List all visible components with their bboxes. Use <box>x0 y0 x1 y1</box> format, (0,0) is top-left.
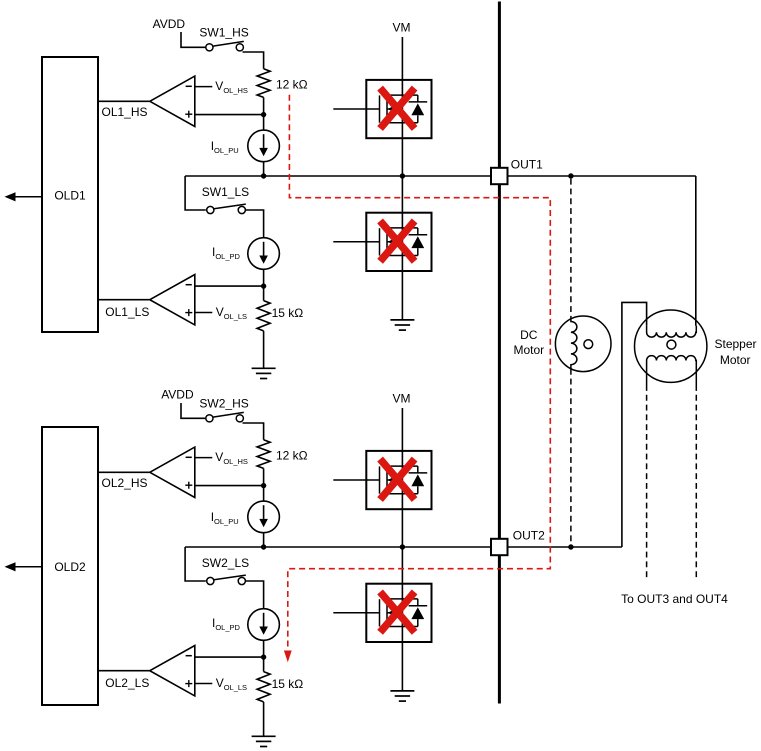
wire OUT1 row to stepper winding (right side) <box>695 176 697 326</box>
comparator OL1_HS <box>150 76 195 126</box>
svg-text:OLD1: OLD1 <box>54 189 86 203</box>
svg-text:AVDD: AVDD <box>161 388 194 402</box>
node OUT1 terminal <box>491 168 508 184</box>
ground (below low-side FET, channel 1) <box>390 319 414 321</box>
wire non-inverting input to sense node <box>195 114 264 116</box>
ground (below 15k, channel 2) <box>252 735 276 737</box>
dashed wire DC motor to OUT2 <box>570 369 572 545</box>
output arrow from OLD2 <box>14 566 43 568</box>
switch SW2_LS <box>185 547 206 581</box>
open-load detect block OLD2 <box>42 427 98 705</box>
wire right side down to coil <box>695 325 698 327</box>
junction on output row (FET column) <box>400 544 405 549</box>
comparator OL2_LS <box>150 646 195 696</box>
current source IOL_PU (channel 2) <box>248 501 280 533</box>
svg-text:12 kΩ: 12 kΩ <box>276 78 308 92</box>
dashed wire OUT1 to DC motor <box>570 179 572 319</box>
wire comparator output to OLD block <box>98 100 150 102</box>
svg-text:SW2_LS: SW2_LS <box>202 556 249 570</box>
svg-text:Stepper: Stepper <box>714 337 756 351</box>
output arrow from OLD1 <box>14 196 43 198</box>
junction on output row (current source) <box>261 173 266 178</box>
wire output row right of terminal <box>508 546 622 548</box>
VM output bus (thick vertical line) <box>498 2 501 704</box>
wire AVDD stub <box>181 32 206 47</box>
svg-text:AVDD: AVDD <box>153 17 186 31</box>
comparator OL2_HS <box>150 447 195 497</box>
stepper winding B (bottom coil) <box>647 356 697 372</box>
red X over low-side FET (disabled) <box>380 221 415 261</box>
wire current source to sense node <box>263 269 265 286</box>
wire comparator output to OLD block <box>98 670 150 672</box>
gate stub low-side FET <box>333 612 366 614</box>
dashed wire to OUT4 <box>695 385 697 578</box>
wire low-side FET to ground <box>401 271 403 320</box>
gate stub low-side FET <box>333 241 366 243</box>
wire output row to low-side FET <box>401 547 403 584</box>
junction on output row (current source) <box>261 544 266 549</box>
svg-text:OUT2: OUT2 <box>513 529 545 543</box>
svg-text:OL1_LS: OL1_LS <box>105 305 149 319</box>
wire inverting input to sense node <box>195 285 264 287</box>
node OUT2 terminal <box>491 539 508 555</box>
wire resistor to ground <box>263 702 265 736</box>
junction to motor (dashed branch) <box>568 544 573 549</box>
svg-text:Motor: Motor <box>720 353 751 367</box>
wire VM to high-side FET <box>401 37 403 80</box>
wire current source to output row <box>263 533 265 547</box>
svg-text:SW1_LS: SW1_LS <box>202 185 249 199</box>
resistor 15 kΩ pull-down (channel 2) <box>257 672 270 702</box>
svg-text:OLD2: OLD2 <box>54 560 86 574</box>
wire switch to pull-down source <box>245 210 263 238</box>
gate stub high-side FET <box>333 108 366 110</box>
open-load detect block OLD1 <box>42 57 98 332</box>
current source IOL_PD (channel 1) <box>248 238 280 270</box>
current source IOL_PU (channel 1) <box>248 130 280 162</box>
wire current source to sense node <box>263 640 265 657</box>
wire switch to resistor <box>243 52 264 69</box>
wire non-inverting input to VOL_LS reference <box>195 312 213 314</box>
wire comparator output to OLD block <box>98 299 150 301</box>
wire resistor to node <box>263 468 265 485</box>
junction node at 12k/IOL_PU <box>261 483 266 488</box>
wire OUT2 row <box>185 546 491 548</box>
stepper motor shaft circle <box>667 340 676 349</box>
svg-text:OL2_LS: OL2_LS <box>105 676 149 690</box>
current source IOL_PD (channel 2) <box>248 609 280 641</box>
svg-text:15 kΩ: 15 kΩ <box>272 677 304 691</box>
wire non-inverting input to VOL_LS reference <box>195 683 213 685</box>
junction node at IOL_PD/15k <box>261 283 266 288</box>
wire low-side FET to ground <box>401 642 403 691</box>
svg-text:Motor: Motor <box>513 343 544 357</box>
wire AVDD stub <box>181 403 206 418</box>
svg-text:15 kΩ: 15 kΩ <box>272 306 304 320</box>
gate stub high-side FET <box>333 479 366 481</box>
wire OUT2 row to stepper winding (left side) <box>622 302 647 547</box>
junction on output row (FET column) <box>400 173 405 178</box>
resistor 12 kΩ pull-up (channel 1) <box>257 69 270 98</box>
ground (below low-side FET, channel 2) <box>390 690 414 692</box>
wire node to current source <box>263 486 265 502</box>
wire switch to pull-down source <box>245 581 263 609</box>
svg-text:OL2_HS: OL2_HS <box>102 476 148 490</box>
red X over high-side FET (disabled) <box>380 88 415 128</box>
wire output row to low-side FET <box>401 176 403 213</box>
switch SW1_LS <box>185 176 206 210</box>
wire inverting input to VOL_HS reference <box>195 457 213 459</box>
dashed wire to OUT3 <box>646 385 648 578</box>
resistor 15 kΩ pull-down (channel 1) <box>257 301 270 331</box>
svg-text:DC: DC <box>520 328 538 342</box>
junction to motor (dashed branch) <box>568 173 573 178</box>
red X over low-side FET (disabled) <box>380 592 415 632</box>
red arrowhead (current direction) <box>284 651 292 663</box>
wire inverting input to sense node <box>195 656 264 658</box>
svg-text:VM: VM <box>393 21 411 35</box>
wire high-side FET to output row <box>401 509 403 547</box>
DC motor body <box>555 316 611 372</box>
svg-text:OL1_HS: OL1_HS <box>102 105 148 119</box>
low-side FET (channel 1) <box>366 213 431 271</box>
stepper winding A (top coil) <box>647 326 697 337</box>
switch SW2_HS <box>206 415 213 422</box>
svg-text:SW1_HS: SW1_HS <box>199 26 248 40</box>
DC motor winding (coil) <box>571 319 577 369</box>
wire OUT1 row <box>185 175 491 177</box>
svg-text:OUT1: OUT1 <box>511 158 543 172</box>
wire high-side FET to output row <box>401 138 403 176</box>
wire output row right of terminal <box>508 175 696 177</box>
junction node at 12k/IOL_PU <box>261 112 266 117</box>
wire current source to output row <box>263 162 265 176</box>
wire resistor to node <box>263 97 265 114</box>
wire node to 15k resistor <box>263 657 265 672</box>
svg-text:VM: VM <box>393 392 411 406</box>
wire node to current source <box>263 115 265 131</box>
wire stepper winding B stubs (solid) <box>646 372 648 385</box>
red X over high-side FET (disabled) <box>380 459 415 499</box>
svg-text:12 kΩ: 12 kΩ <box>276 449 308 463</box>
ground (below 15k, channel 1) <box>252 367 276 369</box>
wire node to 15k resistor <box>263 286 265 301</box>
comparator OL1_LS <box>150 275 195 325</box>
low-side FET (channel 2) <box>366 584 431 642</box>
stepper motor body <box>635 310 707 382</box>
svg-text:SW2_HS: SW2_HS <box>199 397 248 411</box>
high-side FET (channel 1) <box>366 80 431 138</box>
wire VM to high-side FET <box>401 408 403 451</box>
switch SW1_HS <box>206 44 213 51</box>
wire inverting input to VOL_HS reference <box>195 86 213 88</box>
red dashed open-load test current path <box>288 95 551 650</box>
svg-text:To OUT3 and OUT4: To OUT3 and OUT4 <box>621 592 728 606</box>
resistor 12 kΩ pull-up (channel 2) <box>257 440 270 469</box>
junction node at IOL_PD/15k <box>261 654 266 659</box>
DC motor shaft circle <box>584 340 593 349</box>
high-side FET (channel 2) <box>366 451 431 509</box>
wire non-inverting input to sense node <box>195 485 264 487</box>
wire resistor to ground <box>263 331 265 368</box>
wire switch to resistor <box>243 423 264 440</box>
wire comparator output to OLD block <box>98 471 150 473</box>
